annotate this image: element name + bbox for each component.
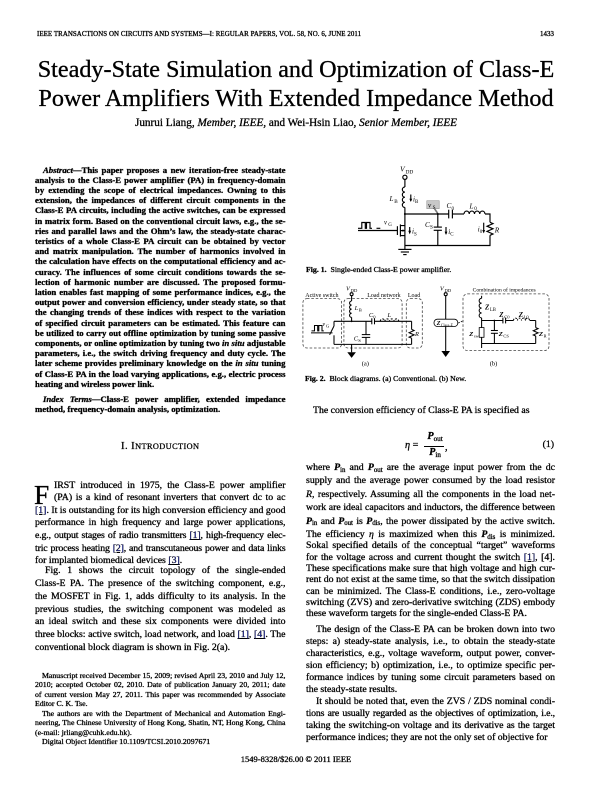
Fig. 2 caption <box>305 374 554 383</box>
current iB arrow <box>409 195 419 206</box>
ground arrow (a) <box>347 344 356 358</box>
svg-text:Active switch: Active switch <box>305 293 338 299</box>
wire: top rail drain to C0 <box>405 213 449 215</box>
impedance ZClassE box <box>434 319 458 327</box>
wire VDD to LB <box>404 179 406 187</box>
gate drive square wave vG <box>358 220 398 231</box>
resistor R <box>487 222 493 235</box>
terminal (b) <box>444 293 447 296</box>
bottom rail (a) <box>334 343 412 345</box>
svg-text:R: R <box>494 227 500 235</box>
block load <box>406 299 422 348</box>
capacitor CS (a) <box>354 321 370 344</box>
wire CS to bottom rail <box>437 230 439 245</box>
stub top (b) <box>481 296 483 299</box>
running head <box>37 31 361 38</box>
intro paragraph 1 <box>35 480 286 568</box>
transistor Q1 MOSFET <box>397 214 405 246</box>
node VDD supply label <box>400 165 413 176</box>
svg-text:L0: L0 <box>524 314 530 319</box>
drop cap <box>34 482 49 508</box>
figure 1: single-ended Class-E PA schematic <box>358 161 504 261</box>
svg-text:Z: Z <box>538 331 543 338</box>
wire ZLB to rail (b) <box>481 318 483 321</box>
index terms <box>35 394 286 414</box>
title <box>0 55 592 113</box>
right column paragraphs <box>306 461 555 528</box>
svg-text:L: L <box>387 312 392 319</box>
terminal (a) <box>350 293 353 296</box>
VDD terminal <box>403 175 407 179</box>
inductor ZLB (b) <box>479 298 481 318</box>
wire LB to drain node <box>404 207 406 214</box>
footer <box>0 754 592 764</box>
svg-text:DD: DD <box>406 169 414 175</box>
svg-text:G: G <box>326 323 330 328</box>
svg-text:S: S <box>358 338 361 343</box>
node VDD (a) <box>346 285 358 293</box>
lead-in sentence <box>306 405 555 418</box>
svg-text:(b): (b) <box>490 360 498 367</box>
svg-text:B: B <box>415 200 419 205</box>
svg-text:0: 0 <box>373 315 376 320</box>
ground arrow (b) <box>441 351 450 357</box>
capacitor C0 <box>447 202 455 218</box>
svg-text:G: G <box>388 223 392 228</box>
svg-text:0: 0 <box>480 230 483 235</box>
node VDD (b) <box>440 285 452 293</box>
impedance Zsw (b) <box>468 321 484 344</box>
svg-text:R: R <box>544 333 547 338</box>
svg-text:Z: Z <box>468 331 473 338</box>
inductor L (a) dashed <box>380 319 399 321</box>
resistor R (a) <box>409 321 419 344</box>
capacitor CS <box>425 221 442 231</box>
svg-text:Load: Load <box>408 293 420 299</box>
svg-text:DD: DD <box>445 288 452 293</box>
top rail (b) <box>482 320 536 322</box>
label (a) <box>362 360 369 367</box>
junction (a) <box>351 320 353 322</box>
bottom rail (b) <box>482 343 536 345</box>
wire VDD to LB (a) <box>351 296 353 301</box>
svg-text:Combination of impedances: Combination of impedances <box>473 287 536 294</box>
top rail (a) <box>334 320 412 322</box>
svg-text:0: 0 <box>474 206 477 212</box>
abstract <box>35 165 286 389</box>
svg-text:LB: LB <box>490 308 496 313</box>
capacitor ZC0 (b) <box>498 311 510 323</box>
junction ZCS rail (b) <box>494 320 496 322</box>
resistor ZR (b) <box>533 321 546 344</box>
svg-text:Load network: Load network <box>367 293 401 299</box>
equation (1) <box>404 429 556 431</box>
svg-text:B: B <box>394 199 398 205</box>
wire LB to top rail (a) <box>351 317 353 321</box>
gate drive square wave vG (a) <box>311 322 333 333</box>
intro paragraph 2 <box>35 565 286 654</box>
svg-text:B: B <box>359 308 362 313</box>
inductor LB <box>402 187 405 207</box>
current i0 arrow <box>478 223 485 235</box>
rail gap C0 (a) <box>375 320 381 322</box>
wire ZClassE to ground arrow <box>445 327 447 352</box>
svg-text:(a): (a) <box>362 360 369 367</box>
current iS arrow <box>408 227 417 237</box>
wire VDD to ZClassE box <box>445 296 447 320</box>
junction drain node <box>404 213 406 215</box>
svg-text:sw: sw <box>474 333 480 338</box>
authors <box>0 117 592 129</box>
inductor L0 <box>464 211 485 214</box>
section heading <box>35 440 286 452</box>
svg-text:CS: CS <box>503 333 509 338</box>
node vS callout <box>427 201 439 214</box>
figure 2: block diagrams <box>300 280 556 370</box>
capacitor ZCS (b) <box>491 321 509 344</box>
label (b) <box>490 360 498 367</box>
inductor ZL0 (b) dashed <box>514 318 530 320</box>
stub below bottom rail (b) <box>481 344 483 349</box>
svg-text:L: L <box>389 195 394 203</box>
svg-text:C0: C0 <box>504 314 510 319</box>
switch S (a) <box>330 321 334 344</box>
Fig. 1 caption <box>306 265 555 274</box>
svg-text:Class-E: Class-E <box>441 323 454 327</box>
capacitor CS branch wire <box>437 214 439 227</box>
svg-text:L: L <box>469 202 474 210</box>
block active switch <box>303 299 342 348</box>
leader dashes <box>458 321 463 323</box>
inductor LB (a) <box>350 301 352 317</box>
current iC arrow <box>445 227 455 238</box>
svg-text:C: C <box>450 233 454 238</box>
footnote <box>35 671 286 747</box>
svg-text:0: 0 <box>452 206 455 212</box>
ground <box>398 246 411 255</box>
svg-text:R: R <box>414 331 419 338</box>
capacitor C0 (a) <box>369 312 376 324</box>
svg-text:Z: Z <box>498 331 503 338</box>
svg-text:S: S <box>430 225 433 231</box>
wire C0 to L0 <box>452 213 464 215</box>
block combination of impedances <box>463 294 549 351</box>
junction node vS <box>437 213 439 215</box>
wire L0 to right corner, down to R <box>485 214 490 222</box>
svg-text:DD: DD <box>351 288 358 293</box>
block load network <box>344 299 402 348</box>
svg-text:S: S <box>414 232 417 237</box>
wire R to bottom rail <box>405 235 490 245</box>
